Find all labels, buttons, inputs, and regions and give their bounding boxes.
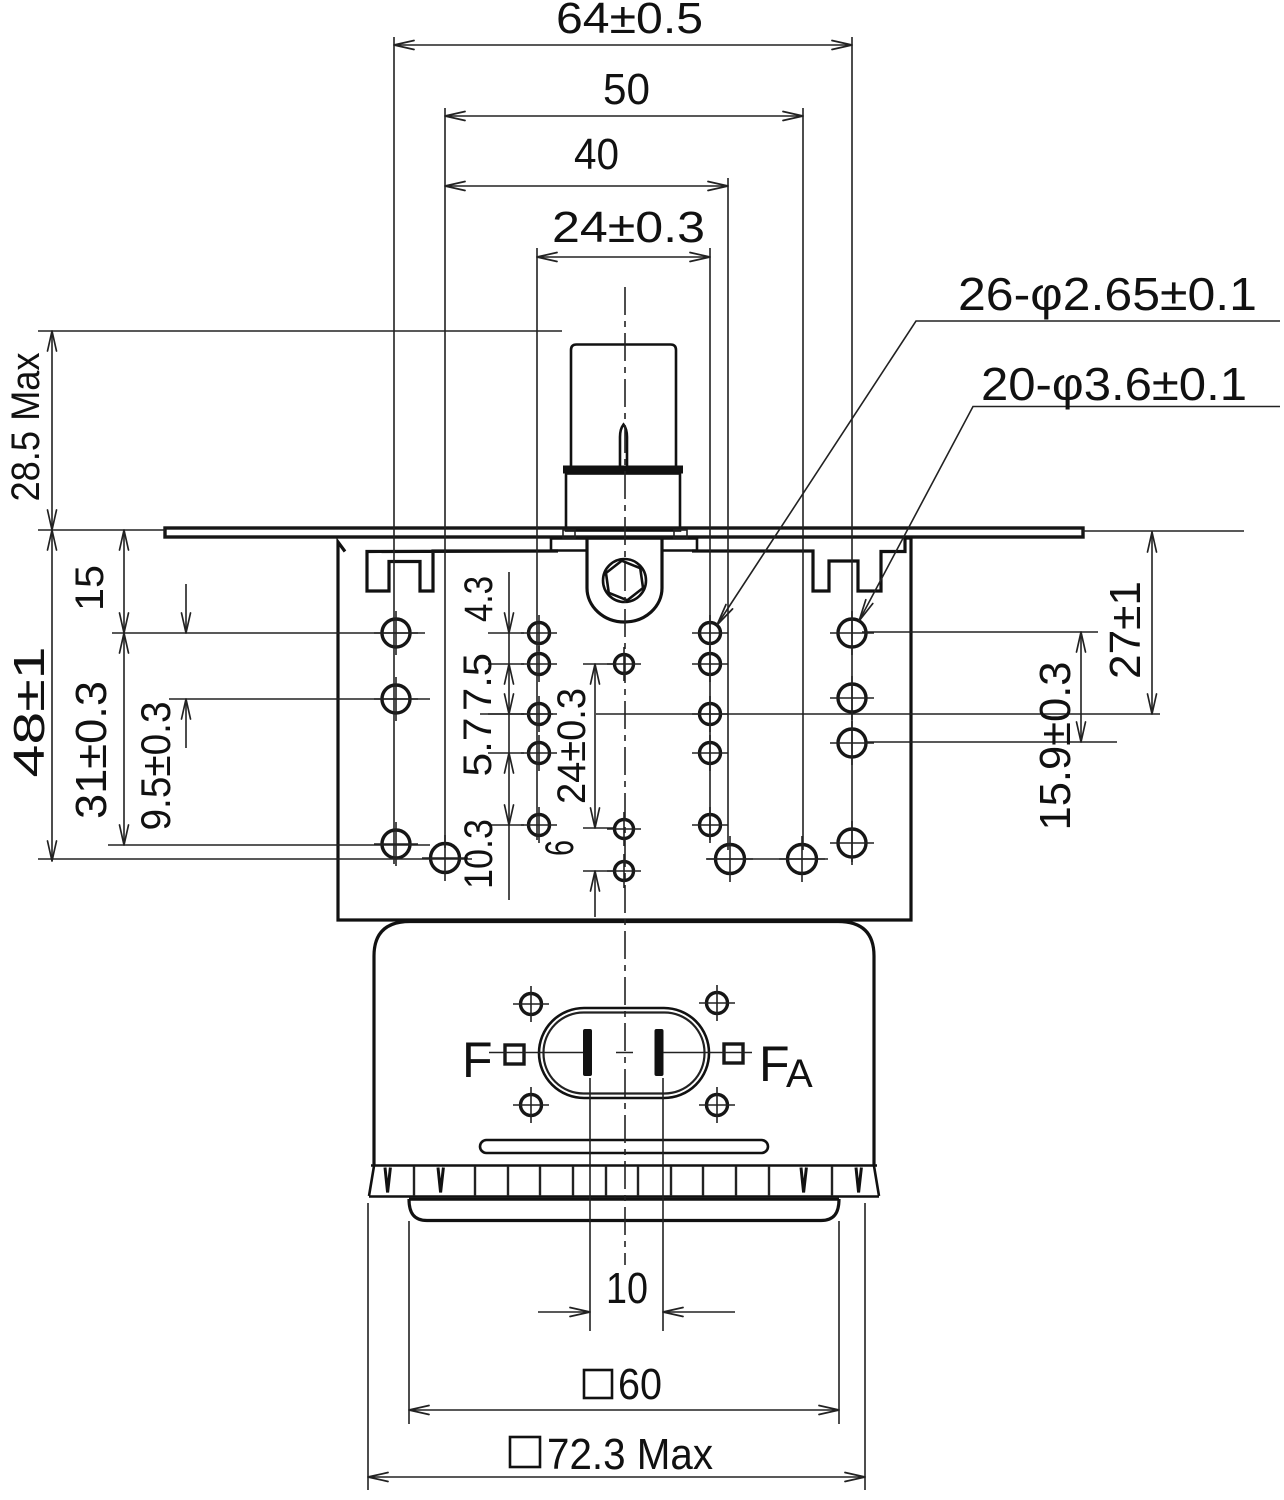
hex hole circle [603, 559, 646, 602]
row line 714 [480, 713, 1160, 715]
hole R2 [830, 676, 874, 720]
svg-text:4.3: 4.3 [457, 576, 501, 622]
hole IR3 [692, 696, 728, 732]
dim 24 top [537, 203, 710, 262]
row line 742 [867, 741, 1117, 743]
svg-text:9.5±0.3: 9.5±0.3 [132, 702, 179, 831]
svg-text:5.7: 5.7 [456, 718, 500, 777]
pedestal under cap [551, 530, 697, 551]
hole IR5 [692, 807, 728, 843]
square marker F [505, 1045, 524, 1064]
hole R4 [830, 821, 874, 865]
svg-text:26-φ2.65±0.1: 26-φ2.65±0.1 [958, 268, 1257, 320]
filament terminal oval outer [539, 1008, 709, 1098]
hole IR4 [692, 735, 728, 771]
hole L1 [374, 611, 418, 655]
svg-text:F: F [759, 1036, 790, 1092]
hole IL1 [521, 615, 557, 651]
label F [462, 1032, 493, 1088]
filament slot F [583, 1029, 592, 1076]
serration dark teeth [385, 1168, 861, 1193]
extension line 60 right [838, 1221, 840, 1424]
svg-text:27±1: 27±1 [1101, 581, 1150, 679]
extension line 40 right [727, 178, 729, 850]
svg-text:10: 10 [606, 1264, 648, 1313]
hole IL4 [521, 735, 557, 771]
serration band top line [371, 1164, 877, 1167]
leader 26-phi2.65 [717, 268, 1280, 625]
dim 28.5 Max [4, 331, 57, 530]
row line 633 left [112, 632, 425, 634]
dim 24 vertical [550, 664, 613, 828]
antenna tip [620, 425, 627, 468]
svg-text:F: F [462, 1032, 493, 1088]
svg-text:A: A [786, 1052, 813, 1096]
hole C2 [607, 812, 641, 846]
dim stack 4.3 7.5 5.7 10.3 [456, 572, 514, 900]
dim 9.5 [132, 584, 191, 831]
svg-text:28.5 Max: 28.5 Max [4, 353, 48, 502]
extension line 60 left [408, 1221, 410, 1424]
row line 859 left [38, 858, 472, 860]
row line 845 [108, 844, 430, 846]
svg-text:72.3 Max: 72.3 Max [547, 1430, 713, 1479]
hole big mid [707, 836, 753, 882]
antenna cylinder [571, 345, 676, 468]
grid tick rows [488, 633, 524, 825]
hole big right [779, 836, 825, 882]
dim 40 [445, 130, 728, 191]
hole IL2 [521, 646, 557, 682]
antenna mount tab [587, 539, 662, 622]
extension line 50 right [802, 108, 804, 850]
hole L2 [374, 677, 418, 721]
vent slot [480, 1140, 768, 1153]
dim 10 [538, 1264, 735, 1317]
serration band bottom line [369, 1195, 879, 1198]
serration band right slant [874, 1166, 879, 1196]
dome corner holes [513, 986, 549, 1022]
dim square 72.3 Max [368, 1430, 865, 1482]
filament terminal oval inner [544, 1013, 705, 1094]
filament slot FA [655, 1029, 664, 1076]
hole C1 [607, 647, 641, 681]
label FA [759, 1036, 813, 1096]
svg-text:31±0.3: 31±0.3 [67, 681, 116, 819]
hole IR1 [692, 615, 728, 651]
dim 15.9 [1031, 632, 1086, 831]
svg-text:50: 50 [603, 65, 650, 114]
extension line flange right [1083, 530, 1244, 532]
extension line 24 left [536, 248, 538, 840]
hole IR2 [692, 646, 728, 682]
dim 64 [394, 0, 852, 50]
leader 20-phi3.6 [859, 358, 1280, 621]
bottom cap [409, 1199, 839, 1221]
dim 15 [68, 530, 129, 633]
svg-text:48±1: 48±1 [5, 647, 54, 778]
hole L3 [374, 822, 418, 866]
dim 27 [1101, 532, 1157, 714]
svg-text:40: 40 [574, 130, 619, 179]
oval centerline [489, 1052, 752, 1054]
hole IL3 [521, 696, 557, 732]
svg-text:20-φ3.6±0.1: 20-φ3.6±0.1 [981, 358, 1247, 410]
svg-text:15: 15 [68, 565, 112, 611]
extension line 64 left [393, 37, 395, 864]
lower dome [374, 922, 874, 1166]
extension line 64 right [851, 37, 853, 862]
dim 6 [538, 840, 613, 917]
extension line 50 left [444, 108, 446, 848]
svg-text:24±0.3: 24±0.3 [550, 688, 594, 804]
hole C3 [607, 854, 641, 888]
antenna cap band [563, 466, 683, 474]
flange strip [165, 528, 1083, 537]
row line 859 mid [706, 858, 828, 860]
hex nut [605, 558, 645, 602]
hole R1 [830, 611, 874, 655]
svg-text:15.9±0.3: 15.9±0.3 [1031, 662, 1080, 831]
serration band left slant [369, 1166, 374, 1196]
row line 699 [169, 698, 430, 700]
extension line flange left [38, 529, 165, 531]
dim 31 [67, 633, 129, 845]
dim 50 [445, 65, 803, 121]
extension line 28.5 top [38, 330, 562, 332]
centerline vertical [624, 287, 626, 1265]
extension line 10 right [662, 1078, 664, 1331]
dim 48 [5, 530, 57, 861]
extension line 24 right [709, 248, 711, 840]
svg-text:64±0.5: 64±0.5 [556, 0, 703, 43]
hole R3 [830, 721, 874, 765]
extension line 72.3 left [367, 1203, 369, 1490]
hole big left [422, 835, 468, 881]
hole IL5 [521, 807, 557, 843]
antenna cap body [566, 474, 680, 531]
row line 633 right [862, 631, 1098, 633]
svg-text:6: 6 [538, 840, 582, 856]
extension line 72.3 right [864, 1203, 866, 1490]
svg-text:60: 60 [618, 1360, 662, 1409]
extension line 10 left [589, 1078, 591, 1331]
square marker FA [724, 1044, 743, 1063]
svg-text:10.3: 10.3 [457, 819, 501, 889]
dim square 60 [409, 1360, 839, 1415]
body outline [338, 538, 911, 920]
svg-text:7.5: 7.5 [456, 653, 500, 711]
serration teeth [414, 1166, 832, 1196]
svg-text:24±0.3: 24±0.3 [552, 203, 705, 252]
